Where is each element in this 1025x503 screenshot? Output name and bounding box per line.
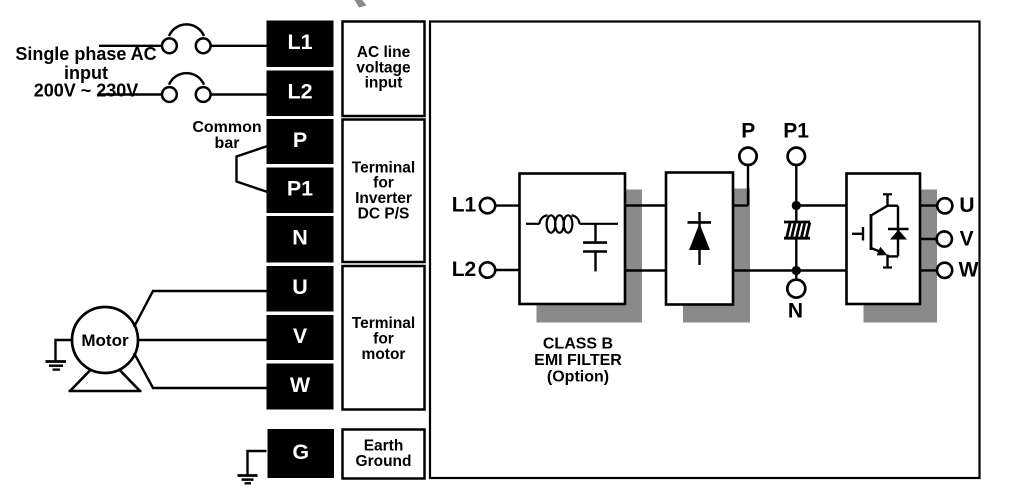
svg-text:Inverter: Inverter xyxy=(355,190,412,207)
wire: junction to N node xyxy=(795,271,797,281)
rectifier box U3 xyxy=(666,173,733,305)
node L1 xyxy=(480,198,495,213)
node N xyxy=(787,280,805,298)
wire: inverter to V node xyxy=(920,238,937,240)
IGBT emitter arrow xyxy=(877,247,888,256)
svg-text:V: V xyxy=(293,324,308,348)
diode D1 (rectifier) xyxy=(688,212,712,265)
svg-text:EMI FILTER: EMI FILTER xyxy=(534,352,622,369)
wire: AC source to breaker S2 xyxy=(99,93,162,95)
freewheel diode D2 xyxy=(888,206,909,257)
wire: breaker S1 to terminal L1 xyxy=(211,45,267,47)
wire: motor to terminal V xyxy=(138,339,267,341)
inverter box U4 xyxy=(847,174,921,305)
wire: L1 node to EMI filter xyxy=(495,204,519,206)
node V xyxy=(937,231,952,246)
wire: earth to terminal G xyxy=(248,451,267,475)
capacitor C (EMI filter) xyxy=(583,224,607,272)
label: Common bar xyxy=(192,119,261,152)
wire: reactor to bottom rail xyxy=(795,238,797,270)
wire: breaker S2 to terminal L2 xyxy=(211,93,267,95)
wire: inverter to U node xyxy=(920,204,937,206)
terminal L1 xyxy=(267,21,334,68)
svg-text:Common: Common xyxy=(192,119,261,136)
wire: EMI filter to rectifier (top rail) xyxy=(625,204,666,206)
svg-text:P1: P1 xyxy=(783,120,809,143)
annotation box: Terminal for motor xyxy=(343,266,425,410)
svg-text:U: U xyxy=(959,194,974,217)
svg-text:U: U xyxy=(292,275,308,299)
svg-text:N: N xyxy=(788,300,803,323)
svg-text:input: input xyxy=(365,75,403,92)
junction dot (P1 / top rail) xyxy=(792,201,801,210)
IGBT Q1 xyxy=(852,194,898,267)
terminal P1 xyxy=(267,168,334,214)
inverter enclosure box xyxy=(430,22,980,479)
svg-text:L2: L2 xyxy=(452,258,477,281)
EMI filter box U2 xyxy=(520,174,626,305)
wire: motor to terminal U xyxy=(134,291,267,327)
svg-text:for: for xyxy=(373,174,394,191)
terminal W xyxy=(267,364,334,410)
shadow of EMI filter box xyxy=(537,190,643,323)
svg-text:P1: P1 xyxy=(287,177,313,201)
svg-text:L1: L1 xyxy=(452,194,477,217)
motor stand xyxy=(69,355,142,391)
svg-text:motor: motor xyxy=(362,346,406,363)
wire: P tap riser xyxy=(747,165,749,206)
common bar jumper P-P1 xyxy=(237,146,268,192)
breaker S2 (L2 phase) xyxy=(162,73,211,102)
svg-text:W: W xyxy=(959,259,979,282)
terminal V xyxy=(267,315,334,360)
node P1 xyxy=(788,148,805,165)
svg-text:DC P/S: DC P/S xyxy=(358,205,410,222)
annotation box: Terminal for Inverter DC P/S xyxy=(343,120,425,263)
svg-text:G: G xyxy=(292,440,309,464)
wire: junction to inverter (top rail) xyxy=(796,204,846,206)
annotation box: Earth Ground xyxy=(343,430,425,479)
svg-text:for: for xyxy=(373,330,394,347)
svg-text:bar: bar xyxy=(215,135,240,152)
wire: rectifier to P tap (top rail) xyxy=(733,204,748,206)
svg-text:Terminal: Terminal xyxy=(352,315,415,332)
svg-text:CLASS B: CLASS B xyxy=(543,336,613,353)
svg-text:V: V xyxy=(960,227,974,250)
terminal L2 xyxy=(267,71,334,117)
svg-text:Ground: Ground xyxy=(356,453,412,470)
terminal P xyxy=(267,119,334,164)
svg-text:N: N xyxy=(292,226,308,250)
ground symbol (motor frame) xyxy=(46,362,67,370)
wire: inverter to W node xyxy=(920,269,937,271)
wire: P1 riser to junction xyxy=(795,165,797,222)
svg-text:L2: L2 xyxy=(287,80,312,104)
svg-text:Earth: Earth xyxy=(364,437,404,454)
label: CLASS B EMI FILTER (Option) xyxy=(534,336,622,386)
DC reactor link (hatched) xyxy=(784,222,810,238)
label: single phase AC input 200V~230V xyxy=(15,44,156,101)
svg-text:P: P xyxy=(293,128,307,152)
motor M1 xyxy=(72,307,138,373)
svg-text:(Option): (Option) xyxy=(547,368,609,385)
terminal G xyxy=(268,429,335,478)
node W xyxy=(937,263,952,278)
wire: rectifier to inverter (bottom rail) xyxy=(733,269,847,271)
wire: AC source to breaker S1 xyxy=(99,45,162,47)
inductor L (EMI filter) xyxy=(526,215,618,232)
svg-text:Motor: Motor xyxy=(81,331,129,350)
node P xyxy=(739,148,756,165)
node L2 xyxy=(480,262,495,277)
svg-text:P: P xyxy=(741,120,755,143)
wire: L2 node to EMI filter xyxy=(495,269,519,271)
gray watermark mark xyxy=(355,0,367,8)
ground symbol (earth ground G) xyxy=(238,476,258,484)
svg-text:200V ~ 230V: 200V ~ 230V xyxy=(34,81,139,101)
svg-text:L1: L1 xyxy=(287,30,312,54)
annotation box: AC line voltage input xyxy=(343,22,425,117)
svg-text:W: W xyxy=(290,373,311,397)
terminal N xyxy=(267,216,334,263)
breaker S1 (L1 phase) xyxy=(162,24,211,53)
junction dot (N / bottom rail) xyxy=(792,266,801,275)
node U xyxy=(937,198,952,213)
shadow of rectifier box xyxy=(683,189,750,323)
wire: EMI filter to rectifier (bottom rail) xyxy=(625,269,666,271)
terminal U xyxy=(267,266,334,312)
wire: motor to earth xyxy=(56,340,74,361)
shadow of inverter box xyxy=(864,190,938,323)
wire: motor to terminal W xyxy=(134,353,267,388)
